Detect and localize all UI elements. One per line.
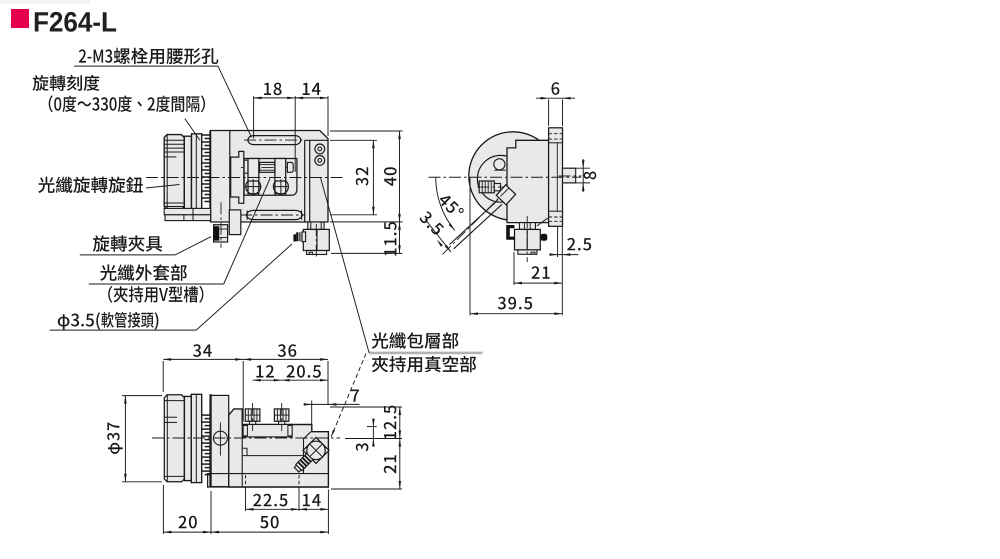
BV dim 22.5/14 line bbox=[246, 508, 329, 510]
FV shaft centerline bbox=[241, 166, 295, 168]
label knob leader bbox=[146, 185, 180, 189]
dim 32 line bbox=[372, 140, 374, 215]
label phi3.5 leader bbox=[196, 244, 292, 330]
SV tube bbox=[450, 200, 498, 244]
SV 3.5 arrows bbox=[437, 240, 443, 247]
FV plate screw hole upper bbox=[315, 144, 325, 154]
label rotation clamp underline bbox=[80, 254, 175, 256]
SV hub inner circle bbox=[477, 155, 524, 202]
BV dim 34/36 line bbox=[163, 358, 328, 360]
BV hose nozzle bbox=[293, 453, 312, 472]
FV bottom slot right cap bbox=[301, 210, 303, 219]
BV dim 36 arrows bbox=[243, 358, 251, 361]
BV centerline bbox=[152, 437, 340, 439]
SV dim 39.5 extensions bbox=[469, 178, 471, 315]
SV clamp screw right bbox=[541, 234, 548, 241]
FV top slot centerline bbox=[244, 139, 305, 141]
BV dim 34/36 extensions bbox=[162, 361, 164, 392]
SV dim 2.5 extensions bbox=[557, 227, 559, 257]
FV end cap knurl line bbox=[164, 151, 184, 153]
SV 45deg arc bbox=[436, 177, 455, 230]
BV screw head L bbox=[245, 409, 260, 421]
dim text 34 bbox=[193, 344, 212, 357]
FV fiber shaft bbox=[260, 162, 275, 172]
FV rotation scale graduations bbox=[202, 135, 210, 202]
BV dim phi37 line bbox=[124, 396, 126, 482]
SV dim 8 extensions bbox=[564, 167, 590, 169]
label rotation scale line1 bbox=[33, 75, 100, 91]
BV dim 50 arrows bbox=[211, 531, 219, 534]
SV rot clamp knurl bbox=[482, 181, 491, 193]
BV dim 7 arrows bbox=[304, 403, 312, 406]
page corner artifact bbox=[0, 0, 90, 4]
FV top slot bbox=[248, 136, 301, 145]
BV platform side L bbox=[243, 426, 247, 436]
FV flange vertical b bbox=[192, 208, 194, 220]
FV left ball bbox=[246, 179, 261, 194]
SV pivot screw circle bbox=[494, 159, 505, 170]
SV clamp block bbox=[515, 229, 541, 250]
FV main body bbox=[211, 131, 328, 223]
FV clamp screw black bbox=[296, 232, 302, 241]
SV flange bottom notch lines bbox=[549, 210, 563, 212]
FV end cap knurl line bbox=[164, 139, 184, 141]
red title square bbox=[11, 9, 29, 28]
BV dim 34 arrows bbox=[163, 358, 171, 361]
SV dim 2.5 line bbox=[549, 254, 578, 256]
FV bottom slot bbox=[246, 210, 302, 219]
FV clamp neck inner bbox=[310, 222, 312, 229]
BV dim 3 arrows bbox=[372, 419, 375, 427]
FV rotation clamp centerline bbox=[220, 202, 222, 247]
SV clamp centerline bbox=[526, 216, 528, 262]
FV mechanism plate bbox=[244, 159, 297, 196]
dim text 20 bbox=[179, 516, 197, 529]
FV end cap knurl line bottom2 bbox=[164, 206, 184, 208]
dim text 21b bbox=[384, 455, 396, 473]
dim text 3.5 bbox=[419, 210, 445, 236]
dim text 2.5 bbox=[567, 238, 591, 251]
BV internal line h bbox=[242, 455, 303, 457]
BV dim 20/50 line bbox=[163, 531, 328, 533]
SV clamp block inner line bbox=[526, 229, 528, 250]
SV rot clamp centerline bbox=[477, 186, 503, 188]
label 2-M3 slot bbox=[79, 48, 218, 65]
FV shaft inner lines bbox=[260, 164, 275, 166]
dim 18/14 line bbox=[254, 97, 328, 99]
FV end cap knurl line bbox=[164, 143, 184, 145]
dim 40/11.5 line bbox=[399, 131, 401, 253]
BV knob end cap bbox=[164, 395, 184, 482]
FV end cap knurl line short bbox=[164, 156, 176, 158]
SV tab centerline bbox=[559, 175, 582, 177]
FV left cap bbox=[244, 160, 248, 173]
BV base strip bbox=[208, 474, 329, 487]
FV lower bracket bbox=[229, 210, 241, 235]
BV end cap inner vline bbox=[166, 395, 168, 482]
BV dim 3 line bbox=[372, 420, 374, 445]
FV knob ring bbox=[184, 136, 191, 209]
BV disc bottom line bbox=[211, 486, 229, 488]
SV right tab bbox=[563, 168, 576, 183]
FV dial disc thick edge bbox=[209, 131, 212, 220]
label fiber rotation knob bbox=[38, 177, 143, 194]
FV under-ball line bbox=[248, 193, 259, 195]
label fiber jacket underline bbox=[89, 283, 224, 285]
FV plate screw hole lower bbox=[315, 156, 325, 166]
BV clamp chamfer bbox=[304, 432, 311, 439]
dim text 40 bbox=[384, 167, 397, 186]
FV flange vertical a bbox=[183, 215, 185, 221]
FV dial ring groove bbox=[195, 134, 197, 211]
SV dim 21 arrows bbox=[514, 282, 522, 285]
dim text 50 bbox=[260, 516, 279, 529]
label phi3.5 hose bbox=[58, 312, 159, 330]
SV dim 8 arrows bbox=[582, 160, 585, 168]
dim text 20.5 bbox=[287, 365, 321, 378]
FV body internal vertical bbox=[229, 131, 231, 223]
BV screw stem L bbox=[250, 421, 256, 428]
dim text 6 bbox=[552, 82, 560, 95]
BV strip top line bbox=[208, 473, 329, 475]
title F264-L bbox=[35, 12, 116, 32]
BV screw centerline L bbox=[252, 403, 254, 431]
SV dim 6 arrows bbox=[541, 97, 549, 100]
FV knob dial ring bbox=[192, 134, 202, 211]
dim text 14 bbox=[303, 83, 321, 95]
BV dim 21 arrows bbox=[399, 439, 402, 447]
BV dim 12 arrows bbox=[253, 379, 261, 382]
dim text 21 bbox=[532, 266, 550, 278]
SV 45deg arc arrow bbox=[449, 223, 455, 230]
BV dim 12.5 arrows bbox=[399, 407, 402, 415]
dim text 7 bbox=[351, 390, 359, 402]
dim 14 arrows bbox=[295, 97, 303, 100]
FV clamp nozzle tip bbox=[293, 234, 296, 241]
BV screw mid lines bbox=[245, 414, 260, 416]
BV graduations bbox=[202, 415, 210, 475]
BV dim 20.5 arrows bbox=[282, 379, 290, 382]
BV disc cross vline bbox=[219, 422, 221, 455]
SV rot clamp stem bbox=[494, 184, 500, 191]
BV dim 12.5/21 extensions bbox=[330, 406, 402, 408]
BV knob dial ring bbox=[191, 394, 201, 482]
FV knob flange strip2 bbox=[165, 215, 211, 221]
BV dim 14 arrows bbox=[299, 508, 307, 511]
SV clamp bracket black bbox=[506, 225, 514, 240]
FV left post edges lower bbox=[247, 181, 249, 195]
label rotation scale line2 bbox=[49, 95, 205, 112]
BV screw cross bbox=[310, 444, 323, 457]
label rotation clamp bbox=[93, 235, 162, 251]
BV body bbox=[229, 409, 329, 487]
FV right plate edges bbox=[305, 140, 328, 222]
dim 18 arrows bbox=[254, 97, 262, 100]
SV flange inner line bbox=[556, 143, 558, 211]
BV screw head R bbox=[274, 409, 289, 421]
SV pivot line bbox=[494, 169, 505, 171]
BV dim 22.5 arrows bbox=[246, 508, 254, 511]
FV rotation clamp knob bbox=[214, 225, 228, 242]
label rotation scale leader bbox=[185, 119, 200, 141]
label cladding leader up bbox=[321, 178, 370, 353]
FV bottom slot centerline bbox=[240, 214, 306, 216]
SV body block bbox=[507, 140, 549, 222]
FV main centerline bbox=[146, 177, 344, 179]
dim 40 arrows bbox=[398, 131, 401, 139]
dim text 32 bbox=[356, 167, 369, 185]
SV dim 2.5 arrows bbox=[550, 253, 558, 256]
label fiber jacket leader bbox=[224, 179, 270, 285]
FV end cap knurl line bbox=[164, 147, 184, 149]
FV bottom slot left cap bbox=[246, 210, 248, 219]
dim text 39.5 bbox=[498, 297, 532, 310]
BV disc cross circle bbox=[213, 431, 227, 445]
SV dim 39.5 arrows bbox=[470, 312, 478, 315]
FV knob end cap bbox=[164, 135, 184, 210]
SV 3.5 dim line bbox=[425, 219, 451, 252]
BV dial ring groove bbox=[195, 394, 197, 482]
FV clamp neck bbox=[308, 222, 324, 229]
FV clamp block inner line bbox=[316, 229, 318, 250]
SV dim 39.5 line bbox=[470, 313, 562, 315]
FV right post edges lower bbox=[274, 181, 276, 195]
BV dim 3 extension bbox=[367, 426, 377, 428]
FV right cap bbox=[287, 162, 293, 172]
label 2-M3 leader bbox=[218, 66, 252, 137]
dim 11.5 arrows bbox=[398, 222, 401, 230]
FV clamp centerline bbox=[315, 224, 317, 258]
SV vacuum tabs bbox=[519, 223, 535, 230]
FV clamp bracket bbox=[231, 151, 244, 203]
FV clamp block bbox=[303, 229, 329, 250]
BV internal step bbox=[242, 448, 247, 455]
BV knob ring bbox=[184, 396, 191, 480]
SV flange top notch lines bbox=[549, 133, 563, 135]
FV clamp feet bbox=[307, 251, 327, 255]
BV dim phi37 arrows bbox=[124, 396, 127, 404]
dim text 8 bbox=[584, 172, 597, 180]
label cladding line2 bbox=[372, 356, 476, 373]
SV knob big circle bbox=[469, 132, 557, 220]
FV left post bbox=[248, 159, 259, 182]
BV dim 7 extension bbox=[311, 401, 313, 426]
SV tube fitting nut bbox=[496, 185, 515, 205]
BV screw stem R bbox=[279, 421, 285, 428]
BV screw centerline R bbox=[281, 403, 283, 431]
BV dim 20/50 extensions bbox=[162, 485, 164, 534]
FV end cap knurl line bottom bbox=[164, 202, 184, 204]
BV dim 22.5/14 extensions bbox=[245, 475, 247, 489]
dim text 18 bbox=[264, 83, 282, 96]
BV dial disc bbox=[211, 395, 229, 486]
FV clamp screw bbox=[302, 232, 306, 242]
dim text 36 bbox=[278, 344, 297, 357]
SV diagonal edge bbox=[537, 218, 548, 226]
FV ball cross left bbox=[246, 186, 262, 188]
BV hex nut bbox=[303, 437, 329, 463]
label cladding leader down bbox=[331, 354, 366, 437]
SV dim 6 extensions bbox=[548, 100, 550, 127]
SV rot clamp knob bbox=[479, 181, 494, 193]
BV clamp left edge bbox=[303, 439, 305, 474]
label rotation clamp leader bbox=[175, 237, 211, 255]
SV dim 8 line bbox=[582, 159, 584, 192]
dim 32 arrows bbox=[372, 140, 375, 148]
SV clamp feet notch bbox=[531, 252, 535, 254]
BV platform bbox=[243, 425, 292, 437]
FV knob flange strip1 bbox=[164, 208, 210, 214]
BV dim phi37 extensions bbox=[122, 395, 162, 397]
FV right post bbox=[275, 159, 286, 182]
BV dim 20 arrows bbox=[163, 531, 171, 534]
label cladding underline bbox=[369, 352, 482, 355]
dim text 45deg bbox=[437, 192, 465, 220]
BV screw circle bbox=[307, 441, 325, 459]
FV rotation clamp black bbox=[214, 226, 219, 240]
SV dim 21 extensions bbox=[513, 252, 515, 285]
label fiber jacket line2 bbox=[108, 286, 203, 303]
dim text 14b bbox=[303, 494, 321, 506]
dim text 11.5 bbox=[384, 222, 396, 255]
BV dim 12.5/21 line bbox=[399, 407, 401, 489]
dim 18/14 extension lines bbox=[254, 96, 328, 172]
FV rotation clamp lines bbox=[219, 228, 227, 230]
FV clamp feet notch bbox=[309, 252, 312, 254]
dim text 3 bbox=[356, 443, 369, 451]
label phi3.5 underline bbox=[50, 329, 197, 331]
BV end cap lines bbox=[164, 400, 184, 402]
SV vacuum tabs inner bbox=[524, 223, 526, 230]
SV dim 21 line bbox=[514, 282, 562, 284]
SV flange bbox=[549, 128, 563, 227]
BV dial thick edge bbox=[209, 394, 212, 486]
label fiber jacket line1 bbox=[100, 264, 187, 281]
SV main centerline bbox=[429, 176, 582, 178]
FV end cap inner vline bbox=[166, 135, 168, 210]
BV platform side R bbox=[288, 426, 292, 436]
SV tube centerline bbox=[441, 188, 509, 256]
dim text 22.5 bbox=[253, 494, 287, 507]
BV internal vertical bbox=[241, 425, 243, 488]
label cladding line1 bbox=[372, 332, 459, 349]
dim 32/40 extensions bbox=[330, 131, 403, 253]
BV dim 12/20.5 line bbox=[253, 379, 328, 381]
dim text phi37 bbox=[107, 423, 123, 454]
FV right ball bbox=[273, 179, 288, 194]
SV dim 6 line bbox=[536, 97, 575, 99]
BV dim 7 line bbox=[306, 403, 360, 405]
BV screw knurls bbox=[248, 409, 286, 421]
label 2-M3 underline bbox=[74, 65, 218, 67]
FV ball cross right bbox=[273, 186, 289, 188]
dim text 12.5 bbox=[384, 406, 397, 439]
SV clamp feet bbox=[518, 250, 537, 254]
dim text 12 bbox=[256, 365, 274, 377]
